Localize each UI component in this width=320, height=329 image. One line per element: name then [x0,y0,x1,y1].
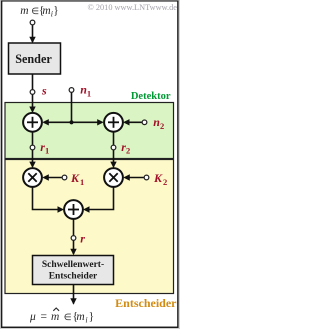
svg-text:Sender: Sender [15,52,52,66]
wire r1 node to multiplier M1 [32,150,34,166]
svg-text:Entscheider: Entscheider [49,272,98,282]
node n2 [142,120,147,125]
svg-text:Entscheider: Entscheider [115,296,177,310]
svg-text:Detektor: Detektor [131,91,171,102]
outer frame [2,1,178,328]
node K1 [62,175,67,180]
wire adder A2 to node r2 [113,132,115,145]
node m (source output) [30,20,35,25]
wire Sender to node s [32,74,34,90]
adder A1 [23,113,42,132]
wire node r to threshold block [73,241,75,254]
svg-text:Schwellenwert-: Schwellenwert- [42,260,104,270]
node n1 [69,88,74,93]
block Sender [9,43,61,74]
wire n2 to adder A2 (arrow left) [125,121,142,123]
wire threshold block to sink [73,285,75,304]
wire s node to adder A1 [32,95,34,112]
wire r2 node to multiplier M2 [113,150,115,166]
wire adder A3 to node r [73,219,75,235]
wire K1 to multiplier M1 (arrow left) [44,177,62,179]
Detektor region box [5,103,174,159]
wire n1 vertical to junction [71,93,73,123]
svg-text:s: s [41,83,47,97]
hat over m [53,308,59,311]
adder A3 [64,200,83,219]
wire junction to adder A1 (arrow left) [44,121,72,123]
wire junction to adder A2 (arrow right) [72,121,103,123]
node K2 [144,175,149,180]
svg-text:© 2010 www.LNTwww.de: © 2010 www.LNTwww.de [88,3,178,12]
Entscheider region box [5,160,174,294]
junction n1 [69,120,73,124]
multiplier M1 [23,168,42,187]
node r [71,236,76,241]
wire m node to Sender [32,25,34,42]
wire multiplier M2 to adder A3 [85,187,114,209]
wire adder A1 to node r1 [32,132,34,145]
wire K2 to multiplier M2 (arrow left) [125,177,144,179]
node s [30,90,35,95]
node r1 [30,145,35,150]
svg-text:r: r [80,232,85,246]
svg-text:m∈{mi}: m∈{mi} [20,5,58,19]
node r2 [111,145,116,150]
wire multiplier M1 to adder A3 [33,187,63,209]
adder A2 [104,113,123,132]
block Schwellenwert-Entscheider [33,256,114,285]
multiplier M2 [104,168,123,187]
